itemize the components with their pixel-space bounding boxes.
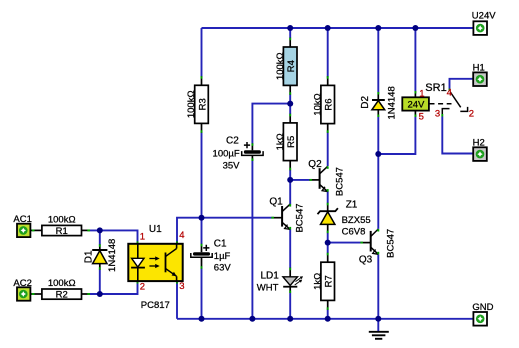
node AC2/R2/D1	[97, 291, 103, 297]
wire R7 bottom to ground rail	[327, 310, 329, 319]
wire U1 pin4 to node A	[177, 218, 202, 244]
wire AC2 row to U1 pin2	[90, 282, 138, 295]
svg-text:63V: 63V	[214, 263, 232, 274]
svg-text:U24V: U24V	[472, 10, 496, 21]
svg-text:BC547: BC547	[334, 167, 345, 196]
wire node E to Q3 collector	[377, 154, 379, 229]
node A R3/U1/Q1/C1	[199, 215, 205, 221]
wire node C to Q1 collector	[289, 180, 291, 205]
resistor R7	[312, 253, 334, 310]
svg-text:1kΩ: 1kΩ	[312, 273, 323, 290]
wire top +24V rail	[202, 27, 474, 29]
svg-text:1µF: 1µF	[214, 251, 231, 262]
svg-text:H1: H1	[473, 62, 485, 73]
wire node A to Q1 base	[202, 217, 272, 219]
wire H1 to relay pin 4	[450, 79, 474, 91]
svg-text:1: 1	[140, 231, 145, 242]
svg-text:U1: U1	[149, 224, 162, 235]
LED LD1 WHT	[257, 268, 303, 294]
wire node E to SR1 coil pin 5	[378, 117, 415, 154]
node gnd-LD1	[287, 316, 293, 322]
node AC1/R1/D1	[97, 227, 103, 233]
wire R3 column top	[201, 28, 203, 77]
svg-text:R2: R2	[56, 290, 68, 301]
resistor R2	[42, 278, 90, 301]
transistor Q2 BC547	[308, 159, 345, 196]
svg-text:100kΩ: 100kΩ	[275, 52, 286, 80]
svg-text:5: 5	[419, 112, 424, 123]
node E D2/SR1/Q3	[375, 151, 381, 157]
svg-text:4: 4	[179, 230, 184, 241]
svg-text:24V: 24V	[407, 100, 425, 111]
svg-text:4: 4	[447, 87, 452, 98]
svg-text:PC817: PC817	[141, 300, 170, 311]
transistor Q1 BC547	[269, 197, 305, 233]
node B R4/R5/C2	[287, 101, 293, 107]
svg-text:R1: R1	[56, 226, 68, 237]
svg-text:Q1: Q1	[269, 197, 283, 208]
wire Z1 bottom to node D	[327, 233, 329, 243]
relay SR1 contact pin 4 blade	[449, 89, 451, 92]
resistor R3	[186, 76, 208, 133]
svg-text:100µF: 100µF	[213, 148, 240, 159]
svg-text:R7: R7	[324, 275, 335, 287]
node rail-R6	[325, 25, 331, 31]
wire R4 top	[289, 28, 291, 38]
node gnd-C1	[199, 316, 205, 322]
resistor R1	[42, 215, 90, 238]
diode D2 1N4148	[360, 86, 397, 119]
opto-coupler U1 PC817	[128, 224, 184, 311]
U1 internal photo-transistor	[165, 253, 167, 273]
wire D2 top	[377, 28, 379, 92]
wire C1 bottom to ground rail	[201, 269, 203, 319]
terminal U24V	[472, 10, 496, 35]
svg-text:WHT: WHT	[257, 283, 279, 294]
svg-text:R5: R5	[286, 136, 297, 148]
wire LD1 bottom to ground rail	[289, 293, 291, 319]
svg-text:100kΩ: 100kΩ	[48, 278, 76, 289]
wire ground stem	[377, 319, 379, 331]
resistor R6	[312, 76, 334, 133]
svg-text:SR1: SR1	[425, 82, 446, 94]
svg-text:C1: C1	[214, 239, 227, 250]
node C R5/Q2/Q1	[287, 177, 293, 183]
wire node D to Q3 base	[328, 242, 361, 244]
wire R3 bottom to C1 top through node	[201, 133, 203, 245]
svg-text:100kΩ: 100kΩ	[48, 215, 76, 226]
capacitor C2 100uF	[213, 136, 264, 172]
svg-text:2: 2	[140, 282, 145, 293]
svg-text:3: 3	[179, 281, 184, 292]
svg-text:Q3: Q3	[359, 255, 373, 266]
wire SR1 coil pin 1 to rail	[414, 28, 416, 91]
svg-text:R3: R3	[197, 98, 208, 110]
U1 internal LED	[137, 244, 139, 258]
wire D1 bottom	[99, 270, 101, 295]
resistor R4 (highlighted)	[275, 38, 297, 95]
svg-text:1kΩ: 1kΩ	[275, 133, 286, 150]
svg-text:H2: H2	[473, 138, 485, 149]
svg-text:3: 3	[435, 109, 440, 120]
relay SR1 contact pin 2	[460, 107, 467, 112]
svg-text:1: 1	[419, 89, 424, 100]
U1 light arrows	[149, 258, 156, 260]
wire AC1 row to U1 pin1	[90, 230, 138, 243]
diode D1 1N4148	[84, 239, 119, 272]
wire R5 bottom to node C	[289, 170, 291, 180]
svg-text:1N4148: 1N4148	[107, 239, 118, 272]
resistor R5	[275, 114, 297, 170]
node gnd-Q3/earth	[375, 316, 381, 322]
wire D2 bottom to node E	[377, 117, 379, 154]
node gnd-C2	[249, 316, 255, 322]
capacitor C1 1uF	[191, 239, 232, 274]
wire Q1 emitter to LD1	[289, 229, 291, 268]
terminal H1	[473, 62, 487, 86]
wire relay pin 3 to H2	[442, 117, 473, 154]
node rail-SR1	[412, 25, 418, 31]
svg-text:D1: D1	[84, 250, 95, 263]
wire node C to Q2 base	[290, 179, 309, 181]
wire ground rail	[177, 318, 473, 320]
svg-text:Q2: Q2	[308, 159, 322, 170]
svg-text:GND: GND	[472, 302, 493, 313]
relay SR1 coil 24V	[402, 82, 474, 123]
zener Z1 BZX55 C6V8	[318, 200, 371, 238]
wire node D to R7 top	[327, 243, 329, 253]
terminal AC2	[13, 278, 42, 301]
wire R6 top	[327, 28, 329, 77]
svg-text:C2: C2	[226, 136, 239, 147]
svg-text:35V: 35V	[223, 161, 241, 172]
svg-text:R6: R6	[324, 98, 335, 110]
transistor Q3 BC547	[359, 229, 397, 266]
terminal H2	[473, 138, 487, 161]
svg-text:100kΩ: 100kΩ	[186, 90, 197, 118]
node gnd-R7	[325, 316, 331, 322]
terminal GND	[472, 302, 493, 325]
svg-text:10kΩ: 10kΩ	[312, 93, 323, 115]
wire D1 top	[99, 230, 101, 244]
svg-text:BC547: BC547	[294, 203, 305, 232]
svg-text:Z1: Z1	[346, 200, 358, 211]
svg-text:LD1: LD1	[260, 270, 279, 281]
svg-text:2: 2	[469, 109, 474, 120]
relay SR1 contact pin 3	[442, 109, 449, 115]
node rail-D2	[375, 25, 381, 31]
terminal AC1	[13, 214, 42, 237]
wire U1 pin3 down	[176, 282, 178, 319]
ground symbol	[369, 332, 389, 339]
wire C2 bottom to ground rail	[251, 159, 253, 319]
node D Z1/Q3/R7	[325, 240, 331, 246]
wire Q3 emitter to ground rail	[377, 255, 379, 319]
wire Q2 emitter to Z1	[327, 191, 329, 203]
wire R4 bottom to R5 top	[289, 95, 291, 115]
wire node B to C2	[252, 104, 290, 144]
svg-text:AC2: AC2	[13, 278, 31, 289]
relay SR1 dashed link	[430, 103, 452, 105]
svg-text:BC547: BC547	[386, 229, 397, 258]
svg-text:D2: D2	[360, 95, 371, 108]
wire R6 bottom to Q2 collector	[327, 133, 329, 167]
svg-text:1N4148: 1N4148	[386, 86, 397, 119]
svg-text:AC1: AC1	[13, 214, 31, 225]
svg-text:R4: R4	[286, 60, 297, 72]
svg-text:BZX55: BZX55	[342, 215, 371, 226]
node rail-R4	[287, 25, 293, 31]
svg-text:C6V8: C6V8	[342, 226, 366, 237]
